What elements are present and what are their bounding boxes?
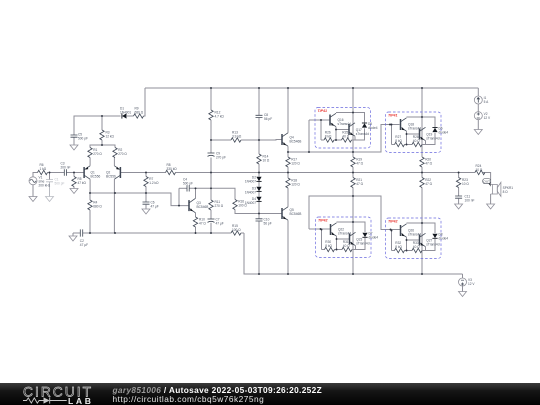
wire wireB C4 to Q3 collector [189, 188, 235, 199]
wire box3 bottom bus b [335, 249, 343, 251]
diode D6 in box2 [432, 126, 448, 134]
wire Q2 collector [113, 179, 115, 233]
resistor R13 [231, 131, 242, 143]
wire output column A in box1 [352, 113, 354, 153]
wire lower driver bus y196 [309, 196, 400, 230]
wire box4 bottom bus b [405, 250, 413, 252]
wire V3 to ground [462, 286, 464, 292]
resistor R17 [286, 157, 301, 167]
capacitor C6 [143, 201, 159, 209]
wire R2 top split [102, 145, 115, 148]
resistor R32 in box4 [395, 241, 405, 253]
svg-text:12 V: 12 V [468, 282, 475, 286]
svg-text:TiP41: TiP41 [388, 113, 398, 117]
diode D1 [120, 107, 131, 119]
resistor R18 [286, 178, 301, 188]
resistor R21 [351, 178, 364, 188]
svg-text:sTrans4d: sTrans4d [356, 132, 369, 136]
resistor R8 [166, 163, 178, 175]
svg-text:680 Ω: 680 Ω [93, 205, 102, 209]
wire R5 to ground [73, 187, 75, 189]
svg-text:TiP42: TiP42 [318, 218, 328, 222]
svg-text:TiP41: TiP41 [318, 109, 328, 113]
svg-text:1N4007: 1N4007 [245, 190, 256, 194]
wire box1 input [309, 119, 321, 121]
wire box3 bottom bus a [322, 249, 325, 251]
svg-text:8 kΩ: 8 kΩ [325, 135, 332, 139]
resistor R24 [475, 164, 485, 175]
svg-text:680 Ω: 680 Ω [135, 111, 144, 115]
wire D3-D4 [258, 192, 260, 197]
svg-text:10 Ω: 10 Ω [263, 159, 270, 163]
wire box3 input [309, 228, 330, 230]
capacitor C10 [256, 217, 272, 225]
transistor Q1 [84, 166, 100, 179]
transistor Q18 in box2 [401, 118, 422, 131]
transistor Q5 [282, 207, 301, 220]
wire I1 to V2 [477, 104, 479, 112]
svg-text:diode4: diode4 [439, 236, 449, 240]
wire R23 column [458, 173, 460, 178]
resistor R9 [134, 107, 144, 119]
voltage source V3 [459, 278, 476, 286]
resistor R33 in box4 [412, 241, 422, 253]
wire C8 column from rail [258, 88, 260, 115]
svg-text:4.7 kΩ: 4.7 kΩ [215, 115, 225, 119]
capacitor C3 [61, 162, 71, 176]
wire box1 bottom bus a [321, 139, 324, 141]
wire R3 column top [101, 116, 103, 130]
junction dots main [49, 87, 460, 275]
wire box4 Q base link [407, 239, 420, 241]
svg-text:8 Ω: 8 Ω [503, 190, 509, 194]
svg-text:47 µF: 47 µF [80, 243, 88, 247]
svg-text:5 A: 5 A [484, 100, 489, 104]
svg-text:56 pF: 56 pF [264, 117, 272, 121]
transistor Q16 in box1 [330, 113, 351, 126]
capacitor C8 [256, 113, 273, 121]
resistor R28 in box2 [412, 135, 422, 147]
wire box3 emitter tie [336, 236, 338, 249]
subcircuit box TiP42 #4 [386, 218, 442, 259]
wire C9 to mid rail [210, 158, 212, 173]
svg-text:BC556: BC556 [91, 174, 101, 178]
svg-text:LAB: LAB [68, 396, 92, 405]
wire Q3 collector riser [195, 188, 197, 198]
junction dots box2 [391, 116, 423, 145]
transistor Q22 in box3 [331, 223, 352, 236]
transistor Q4 [282, 133, 301, 146]
svg-text:500 pF: 500 pF [55, 182, 65, 186]
wire box3 top bus [337, 222, 366, 232]
wire R5 column [73, 173, 75, 177]
svg-text:diode4: diode4 [369, 235, 379, 239]
svg-text:270 pF: 270 pF [216, 156, 226, 160]
wire ground stem bottom-left [72, 233, 74, 236]
svg-text:47 Ω: 47 Ω [356, 182, 363, 186]
wire output column B top [421, 88, 423, 117]
svg-text:270 Ω: 270 Ω [215, 204, 224, 208]
wire C2 to rail junctions [83, 232, 231, 234]
wire box4 Q2 emitter drop [425, 247, 427, 251]
wire mid rail to R21 [352, 173, 354, 178]
net label OUT [483, 179, 491, 187]
ground bottom-left rail [69, 236, 77, 241]
capacitor C9 [208, 152, 226, 160]
wire top-left branch to D1/R9 [74, 116, 121, 131]
wire R11 to C7 [210, 210, 212, 219]
resistor R31 in box3 [342, 240, 352, 252]
wire R12 to node C9 [210, 120, 212, 153]
wire box1 Q base link [336, 129, 349, 131]
wire mid rail feedback segment [146, 172, 166, 174]
ground under V1 [29, 197, 37, 202]
wire R6 to node [48, 172, 65, 174]
wire Q1 emitter [89, 158, 91, 166]
wire C1 to ground [49, 182, 51, 197]
resistor R2 [113, 148, 128, 158]
wire C7 to bottom rail [210, 223, 212, 233]
wire Q4 emitter to y152 [287, 146, 289, 152]
wire R7 to y193 [145, 187, 147, 194]
wire input source to R6 [33, 173, 38, 177]
svg-text:BC546B: BC546B [290, 212, 302, 216]
svg-text:diode4: diode4 [439, 130, 449, 134]
svg-text:diode4: diode4 [368, 126, 378, 130]
svg-text:40 Ω: 40 Ω [413, 245, 420, 249]
capacitor C2 [80, 229, 82, 236]
wire box1 input2 [321, 119, 330, 121]
resistor R5 [72, 177, 87, 187]
svg-text:47 Ω: 47 Ω [199, 222, 206, 226]
wire box1 emitter tie [335, 127, 337, 140]
resistor R3 [100, 130, 115, 140]
wire node140 to R14 [258, 140, 260, 154]
diode D3 [245, 186, 262, 194]
wire R21 to y196 [352, 188, 354, 197]
wire y193 to C6 [145, 193, 147, 202]
wire box2 bottom bus b [405, 144, 413, 146]
wire C4 vertical tie [178, 188, 180, 205]
resistor R14 [257, 154, 270, 164]
capacitor C5 [71, 133, 88, 141]
resistor R11 [209, 200, 224, 210]
wire R4 bottom stub [89, 210, 91, 233]
svg-text:1.2 kΩ: 1.2 kΩ [149, 181, 159, 185]
ground under C1 [46, 197, 54, 202]
svg-text:3.9 kΩ: 3.9 kΩ [232, 135, 242, 139]
wire Q4 collector column [287, 88, 289, 133]
current source I1 [474, 96, 489, 104]
wire R4 top stub [89, 193, 91, 200]
svg-text:8 kΩ: 8 kΩ [325, 244, 332, 248]
wire Q2 emitter [113, 158, 115, 166]
transistor Q17 in box1 [349, 123, 369, 136]
diode D2 [245, 175, 262, 183]
ground under C11 [455, 204, 463, 209]
resistor R4 [88, 200, 103, 210]
junction dots box4 [391, 222, 423, 251]
wire speaker to ground [490, 194, 492, 204]
resistor R25 in box1 [342, 131, 352, 143]
svg-text:120 Ω: 120 Ω [291, 162, 300, 166]
svg-text:500 pF: 500 pF [183, 182, 193, 186]
wire R12 column from rail [210, 88, 212, 110]
wire R9 to top rail riser [144, 88, 146, 116]
resistor R22 [420, 178, 433, 188]
wire R15 corner to low rail [244, 233, 463, 274]
svg-text:10 Ω: 10 Ω [462, 182, 469, 186]
svg-text:40 Ω: 40 Ω [342, 135, 349, 139]
wire C8 to node140 [258, 118, 260, 140]
svg-text:47 Ω: 47 Ω [356, 162, 363, 166]
svg-text:270 Ω: 270 Ω [118, 152, 127, 156]
transistor Q2 [106, 166, 120, 179]
diode D5 in box1 [362, 122, 378, 130]
wire mid rail to R24 [459, 172, 475, 174]
wire R20 to mid rail [421, 167, 423, 173]
svg-text:120 Ω: 120 Ω [291, 183, 300, 187]
junction dots box1 [320, 112, 354, 141]
svg-text:sTrans4d: sTrans4d [356, 241, 369, 245]
wire C5 to ground [73, 137, 75, 145]
svg-text:1N4001: 1N4001 [120, 111, 131, 115]
wire R18 to Q5 collector [287, 188, 289, 207]
wire node to C1 [49, 173, 51, 180]
svg-text:1 kΩ: 1 kΩ [40, 167, 47, 171]
resistor R1 [88, 148, 103, 158]
wire C5 drop [73, 131, 75, 135]
diode D8 in box4 [432, 232, 448, 240]
ground under speaker [487, 204, 495, 209]
svg-text:12 V: 12 V [484, 116, 491, 120]
wire R24 to OUT corner [483, 173, 491, 185]
wire bottom-left rail [73, 232, 80, 234]
resistor R19 [351, 157, 364, 167]
ground under R5 [70, 189, 78, 194]
wire V1 to ground [32, 185, 34, 197]
wire box4 bottom bus c [422, 239, 435, 251]
wire D4 to y213 node [258, 202, 260, 214]
wire y213 node to C10 [258, 214, 260, 219]
resistor R23 [456, 178, 469, 188]
resistor R10 [193, 217, 206, 227]
voltage source V2 [474, 112, 491, 120]
wire box4 emitter tie [406, 237, 408, 250]
voltage source V1 [29, 175, 51, 187]
wire D1-R9 link [127, 115, 134, 117]
transistor Q3 [189, 198, 208, 213]
svg-text:500 pF: 500 pF [78, 137, 88, 141]
wire output column A top [352, 88, 354, 113]
capacitor C4 [183, 178, 193, 192]
svg-text:47 Ω: 47 Ω [425, 182, 432, 186]
wire box2 Q2 emitter drop [425, 141, 427, 145]
resistor R16 [233, 200, 248, 210]
wire box1 riser [308, 120, 310, 152]
wire C3 to Q1 base [67, 172, 85, 174]
wire node to wireB x211 [210, 173, 212, 189]
wire V2 to ground [477, 120, 479, 130]
wire R7 column [145, 173, 147, 177]
wire R19 to mid rail [352, 167, 354, 173]
wire y152 to R17 [287, 152, 289, 157]
subcircuit box TiP41 #2 [386, 112, 442, 153]
wire C10 to bottom rail [258, 221, 260, 274]
footer bar [0, 383, 540, 405]
transistor Q23 in box3 [350, 232, 370, 245]
wire R16 to y213 [235, 210, 282, 214]
subcircuit box TiP42 #3 [316, 217, 372, 258]
wire Q1 collector to y193 [89, 179, 91, 193]
wire y196 through box3 [352, 196, 354, 274]
subcircuit box TiP41 #1 [315, 108, 371, 149]
wire box1 bottom bus c [352, 128, 365, 140]
CircuitLab logo [18, 382, 128, 405]
resistor R20 [420, 157, 433, 167]
wire box1 top bus [336, 113, 365, 123]
svg-text:100 Ω: 100 Ω [238, 204, 247, 208]
wire box2 bottom bus a [392, 144, 395, 146]
wire box2 Q base link [407, 133, 420, 135]
wire driver bus y152 [288, 125, 400, 153]
transistor Q26 in box4 [401, 224, 422, 237]
svg-text:BC546B: BC546B [290, 140, 302, 144]
wire VAS input y193 [90, 193, 189, 206]
ground under C6 [142, 209, 150, 214]
svg-text:56 pF: 56 pF [264, 221, 272, 225]
transistor Q27 in box4 [420, 233, 440, 246]
wire y152 to R19 [352, 152, 354, 157]
resistor R7 [144, 177, 159, 187]
diode D4 [245, 197, 262, 205]
resistor R26 in box1 [324, 131, 334, 143]
svg-text:40 Ω: 40 Ω [413, 139, 420, 143]
ground under V3 [459, 292, 467, 297]
svg-text:TiP42: TiP42 [388, 219, 398, 223]
wire mid rail to R22 [421, 173, 423, 178]
svg-text:330 kΩ: 330 kΩ [167, 167, 178, 171]
svg-text:100 Ω: 100 Ω [232, 228, 241, 232]
svg-text:40 Ω: 40 Ω [343, 244, 350, 248]
wire box3 Q base link [337, 238, 350, 240]
wire output column B box2 [421, 117, 423, 157]
wire R15 right lead [241, 232, 244, 234]
wire Q3 emitter to R10 [195, 213, 197, 217]
resistor R27 in box2 [395, 135, 405, 147]
svg-text:OUT: OUT [483, 180, 490, 184]
wire C11 to ground [458, 199, 460, 204]
wire D2-D3 [258, 182, 260, 187]
wire R14 to mid rail [258, 164, 260, 173]
wire top rail net V+ [145, 87, 478, 89]
svg-text:BC546B: BC546B [197, 205, 209, 209]
resistor R30 in box3 [325, 240, 335, 252]
ground under V2 [474, 130, 482, 135]
svg-text:47 µF: 47 µF [216, 222, 224, 226]
capacitor C11 [455, 195, 474, 203]
svg-text:10 Ω: 10 Ω [476, 168, 483, 172]
wire box4 left leg [391, 231, 393, 251]
svg-text:12 kΩ: 12 kΩ [106, 135, 115, 139]
label C2 [80, 239, 88, 247]
diode D7 in box3 [362, 231, 378, 239]
wire box4 bottom bus a [392, 250, 395, 252]
ground under C5 [70, 145, 78, 150]
resistor R15 [231, 224, 241, 235]
svg-text:47 kΩ: 47 kΩ [78, 181, 87, 185]
wire box4 top bus [407, 223, 436, 233]
svg-text:8 kΩ: 8 kΩ [395, 245, 402, 249]
resistor R6 [38, 163, 48, 175]
wire rail to I1 [477, 88, 479, 96]
wire R3 bottom split [90, 140, 102, 148]
wire mid rail main [176, 172, 459, 174]
capacitor C1 (gray) [46, 178, 64, 186]
wire box1 left leg [320, 120, 322, 140]
wire Q5 emitter to low rail [287, 220, 289, 274]
svg-text:sTrans4d: sTrans4d [426, 242, 439, 246]
wire R10 to bottom rail [195, 227, 197, 233]
wire box2 left leg [391, 125, 393, 145]
wire box2 bottom bus c [422, 133, 435, 145]
junction dots box3 [321, 221, 354, 250]
wire box2 top bus [407, 117, 436, 127]
wire box3 left leg [321, 230, 323, 250]
wire box1 bottom bus b [334, 139, 342, 141]
svg-text:100 nF: 100 nF [465, 199, 475, 203]
svg-text:200 kHz: 200 kHz [39, 183, 51, 187]
svg-text:1N4007: 1N4007 [245, 179, 256, 183]
wire R23 to C11 [458, 188, 460, 197]
wire R13 to Q4 base [241, 139, 282, 142]
svg-text:sTrans4d: sTrans4d [426, 136, 439, 140]
capacitor C7 [208, 218, 224, 226]
resistor R12 [209, 110, 225, 120]
wire VAS drive y140 [211, 139, 231, 141]
svg-text:200 nF: 200 nF [61, 166, 71, 170]
wire C6 to ground [145, 205, 147, 209]
wire R22 through box4 [421, 188, 423, 275]
wire box1 Q2 emitter drop [354, 136, 356, 140]
wire C4 branch left [179, 187, 187, 189]
svg-text:270 Ω: 270 Ω [93, 152, 102, 156]
speaker SPKR1 [491, 182, 514, 196]
wire R17 to mid rail [287, 167, 289, 173]
wire Q2 base to mid rail [120, 172, 146, 174]
wire mid rail to R18 [287, 173, 289, 179]
svg-text:BC556: BC556 [106, 174, 116, 178]
wire box3 Q2 emitter drop [355, 246, 357, 250]
svg-text:47 Ω: 47 Ω [425, 162, 432, 166]
svg-text:47 µF: 47 µF [151, 205, 159, 209]
wire low rail to V3 [462, 274, 464, 278]
wire wireB to R11 [210, 188, 212, 200]
wire box3 bottom bus c [352, 238, 365, 250]
transistor Q19 in box2 [420, 127, 440, 140]
wire mid rail to D2 [258, 173, 260, 177]
svg-text:8 kΩ: 8 kΩ [395, 139, 402, 143]
wire box2 emitter tie [406, 131, 408, 144]
